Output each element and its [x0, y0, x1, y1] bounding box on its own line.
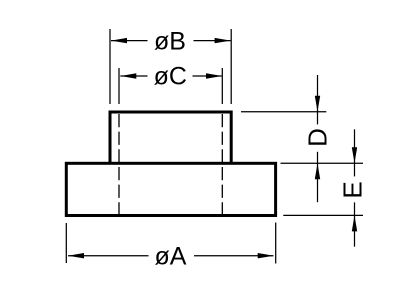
dimension øC line with arrows [120, 75, 222, 77]
øB arrowhead right [215, 38, 231, 43]
svg-text:D: D [303, 128, 333, 147]
dimension E line with outside arrows [354, 129, 356, 246]
shared extension line at flange top (D bottom / E top) [281, 162, 364, 164]
D arrowhead up [315, 163, 320, 179]
dimension E extension line bottom [283, 214, 363, 216]
øC arrowhead right [206, 73, 222, 78]
dimension øB extension lines [110, 29, 231, 104]
øA arrowhead right [258, 253, 274, 258]
E arrowhead down [352, 147, 357, 163]
svg-text:øB: øB [154, 27, 186, 55]
svg-text:E: E [337, 181, 367, 198]
boss outline (top rectangle of part) [110, 112, 231, 163]
dimension D line with outside arrows [317, 75, 319, 202]
E arrowhead up [352, 215, 357, 231]
svg-text:øC: øC [154, 62, 187, 90]
dimension øA extension lines [66, 223, 275, 264]
øC arrowhead left [120, 73, 136, 78]
dimension øA line with arrows [68, 255, 274, 257]
svg-text:øA: øA [155, 242, 187, 270]
øA arrowhead left [68, 253, 84, 258]
dimension øC extension lines [119, 68, 222, 104]
øB arrowhead left [111, 38, 127, 43]
dimension D extension line top [241, 111, 326, 113]
hole centerline left (dashed) [118, 114, 120, 216]
D arrowhead down [315, 96, 320, 112]
flange outline (bottom rectangle of part) [66, 163, 275, 215]
dimension øB line with arrows [111, 40, 231, 42]
hole centerline right (dashed) [221, 114, 223, 216]
